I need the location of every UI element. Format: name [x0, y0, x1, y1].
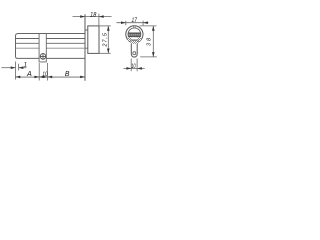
svg-text:18: 18: [90, 11, 96, 18]
svg-text:10: 10: [131, 63, 136, 70]
knob rectangle: [88, 26, 99, 54]
body internal line y=38.5: [16, 38, 86, 40]
cam below body: [39, 58, 46, 62]
profile screw hole: [133, 52, 136, 55]
profile extension: [131, 41, 137, 57]
cam ring verticals: [39, 34, 46, 59]
svg-text:B: B: [65, 71, 70, 78]
svg-text:10: 10: [42, 71, 47, 78]
body internal line y=48.1: [16, 47, 86, 49]
body right edge / extension line x=85: [84, 14, 86, 81]
knurled ring texture below grip bar: [128, 37, 141, 44]
top notch: [134, 26, 136, 28]
svg-text:27,5: 27,5: [102, 32, 108, 47]
body internal line y=43.2: [16, 42, 86, 44]
svg-text:A: A: [26, 69, 32, 78]
svg-text:38: 38: [146, 37, 152, 46]
knob neck lines: [85, 30, 88, 48]
cylinder body outline (side view): [16, 34, 86, 59]
svg-text:1: 1: [24, 61, 27, 68]
screw head on cam: [40, 53, 46, 59]
inner circle: [128, 28, 141, 41]
background: [0, 0, 166, 96]
svg-text:17: 17: [132, 17, 138, 24]
outer circle: [126, 26, 143, 43]
